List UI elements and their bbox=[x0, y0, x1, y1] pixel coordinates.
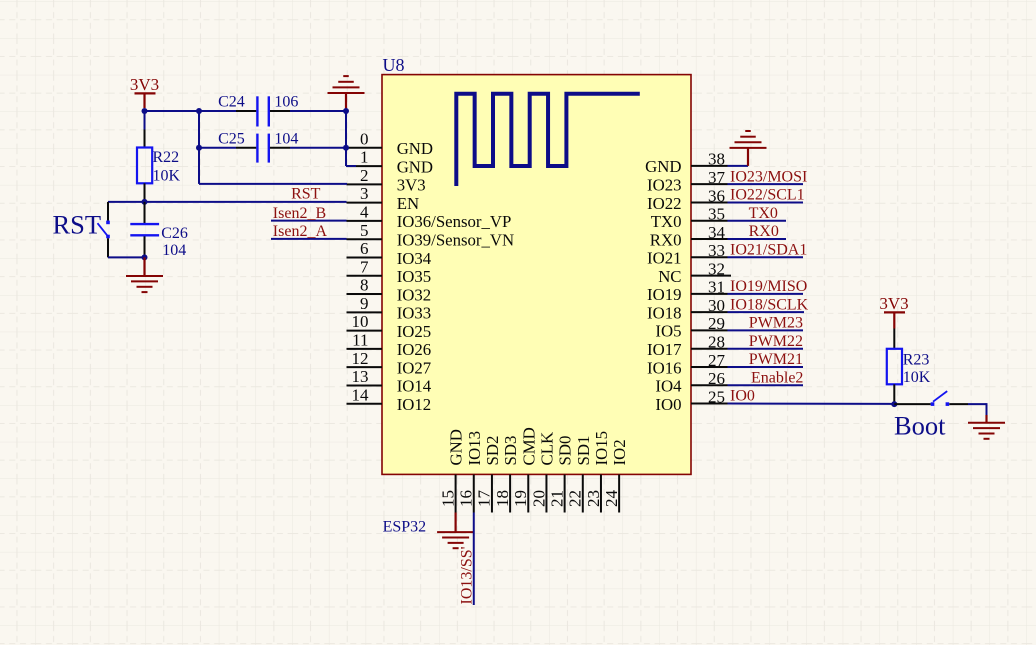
wire ground node down to pin1 bbox=[345, 111, 347, 166]
svg-text:IO26: IO26 bbox=[397, 340, 432, 359]
svg-text:3V3: 3V3 bbox=[879, 294, 908, 313]
pin 33 stub bbox=[691, 256, 728, 258]
power stem 3V3 right bbox=[893, 312, 895, 328]
power stem 3V3 left bbox=[143, 93, 145, 108]
wire C24 to ground node bbox=[290, 110, 346, 112]
svg-text:26: 26 bbox=[708, 369, 725, 388]
svg-text:CLK: CLK bbox=[537, 432, 556, 466]
pin 16 stub bbox=[473, 475, 475, 513]
pin 25 stub bbox=[691, 403, 728, 405]
svg-text:0: 0 bbox=[360, 129, 369, 148]
IC U8 ESP32 module body bbox=[382, 75, 691, 475]
C26 bottom pin bbox=[144, 236, 146, 257]
junction R23 on IO0 wire bbox=[891, 401, 897, 407]
svg-text:Isen2_A: Isen2_A bbox=[273, 223, 328, 240]
pin 23 stub bbox=[600, 475, 602, 513]
pin 2 stub bbox=[347, 183, 383, 185]
svg-text:Enable2: Enable2 bbox=[751, 369, 803, 386]
svg-text:2: 2 bbox=[360, 166, 369, 185]
wire net RX0 bbox=[728, 238, 787, 240]
pin 10 stub bbox=[347, 330, 383, 332]
pin 30 stub bbox=[691, 311, 728, 313]
pin 11 stub bbox=[347, 348, 383, 350]
switch Boot right pin bbox=[949, 403, 968, 405]
pin 37 stub bbox=[691, 183, 728, 185]
switch RST pads bbox=[106, 221, 110, 239]
pin 4 stub bbox=[347, 220, 383, 222]
svg-text:SD0: SD0 bbox=[556, 436, 575, 466]
svg-text:3V3: 3V3 bbox=[130, 75, 159, 94]
R23 top lead bbox=[893, 329, 895, 349]
svg-text:IO18/SCLK: IO18/SCLK bbox=[730, 296, 809, 313]
ground stem top bbox=[345, 93, 347, 111]
wire switch to C26 bottom bbox=[108, 256, 145, 258]
svg-text:14: 14 bbox=[352, 385, 370, 404]
svg-text:IO34: IO34 bbox=[397, 249, 432, 268]
wire IO13/SS net bbox=[473, 513, 475, 606]
svg-text:NC: NC bbox=[658, 267, 681, 286]
wire net IO19/MISO bbox=[728, 293, 804, 295]
svg-text:C26: C26 bbox=[161, 225, 188, 242]
wire net IO22/SCL1 bbox=[728, 201, 804, 203]
svg-text:22: 22 bbox=[566, 490, 585, 507]
pin 35 stub bbox=[691, 220, 728, 222]
C24 left pin bbox=[236, 110, 256, 112]
svg-text:106: 106 bbox=[274, 94, 298, 111]
svg-text:21: 21 bbox=[547, 490, 566, 507]
pin 26 stub bbox=[691, 384, 728, 386]
svg-text:25: 25 bbox=[708, 387, 725, 406]
ground GND38 bbox=[730, 131, 767, 148]
ground GND Boot bbox=[968, 423, 1005, 439]
svg-text:3V3: 3V3 bbox=[397, 176, 426, 195]
svg-text:GND: GND bbox=[447, 429, 466, 465]
svg-text:31: 31 bbox=[708, 278, 725, 297]
ground stem Boot bbox=[985, 415, 987, 423]
junction C24 right ground bbox=[343, 108, 349, 114]
svg-text:11: 11 bbox=[352, 330, 368, 349]
wire C25 to pin0 node bbox=[290, 147, 346, 149]
wire IO0 net bbox=[728, 403, 895, 405]
switch RST blade bbox=[98, 223, 108, 236]
pin 34 stub bbox=[691, 238, 728, 240]
pin 29 stub bbox=[691, 329, 728, 331]
pin 14 stub bbox=[347, 403, 383, 405]
pin 3 stub bbox=[347, 202, 383, 204]
svg-text:IO0: IO0 bbox=[730, 388, 755, 405]
svg-text:30: 30 bbox=[708, 296, 725, 315]
svg-text:13: 13 bbox=[352, 367, 369, 386]
svg-text:IO33: IO33 bbox=[397, 304, 432, 323]
pin 6 stub bbox=[347, 256, 383, 258]
svg-text:28: 28 bbox=[708, 333, 725, 352]
svg-text:29: 29 bbox=[708, 314, 725, 333]
svg-text:IO13: IO13 bbox=[465, 431, 484, 466]
svg-text:20: 20 bbox=[529, 490, 548, 507]
switch Boot pads bbox=[931, 402, 949, 406]
svg-text:33: 33 bbox=[708, 241, 725, 260]
svg-text:RST: RST bbox=[53, 209, 102, 239]
wire to C25 left bbox=[199, 147, 236, 149]
svg-text:IO21: IO21 bbox=[647, 249, 682, 268]
svg-text:U8: U8 bbox=[383, 55, 405, 75]
svg-text:IO25: IO25 bbox=[397, 322, 432, 341]
pin 28 stub bbox=[691, 348, 728, 350]
svg-text:10K: 10K bbox=[903, 369, 931, 386]
svg-text:23: 23 bbox=[584, 490, 603, 507]
pin 38 stub bbox=[691, 165, 728, 167]
svg-text:10K: 10K bbox=[153, 168, 181, 185]
svg-text:IO23/MOSI: IO23/MOSI bbox=[730, 168, 807, 185]
switch Boot blade bbox=[933, 391, 947, 402]
svg-text:IO21/SDA1: IO21/SDA1 bbox=[730, 242, 807, 259]
wire to C24 left bbox=[199, 110, 236, 112]
wire net IO21/SDA1 bbox=[728, 256, 804, 258]
svg-text:18: 18 bbox=[493, 490, 512, 507]
C25 left pin bbox=[236, 147, 256, 149]
switch Boot left pin bbox=[894, 403, 930, 405]
wire Boot to ground bbox=[968, 403, 987, 405]
svg-text:27: 27 bbox=[708, 351, 726, 370]
pin 12 stub bbox=[347, 366, 383, 368]
pin 7 stub bbox=[347, 275, 383, 277]
svg-text:PWM21: PWM21 bbox=[749, 351, 803, 368]
svg-text:SD3: SD3 bbox=[501, 436, 520, 466]
svg-text:IO16: IO16 bbox=[647, 358, 682, 377]
svg-text:PWM23: PWM23 bbox=[749, 315, 803, 332]
svg-text:ESP32: ESP32 bbox=[383, 518, 427, 535]
svg-text:IO22: IO22 bbox=[647, 194, 682, 213]
svg-text:IO19/MISO: IO19/MISO bbox=[730, 278, 807, 295]
wire net TX0 bbox=[728, 220, 787, 222]
R23 bottom lead bbox=[893, 384, 895, 402]
svg-text:34: 34 bbox=[708, 223, 726, 242]
svg-text:32: 32 bbox=[708, 259, 725, 278]
wire net PWM23 bbox=[728, 329, 804, 331]
svg-text:IO27: IO27 bbox=[397, 358, 432, 377]
ground GND C26 bbox=[126, 276, 163, 292]
pin 24 stub bbox=[618, 475, 620, 513]
svg-text:CMD: CMD bbox=[519, 427, 538, 465]
junction C26 ground node bbox=[142, 254, 148, 260]
pin 27 stub bbox=[691, 366, 728, 368]
C24 right pin bbox=[270, 110, 290, 112]
svg-text:C24: C24 bbox=[218, 94, 245, 111]
wire corner to pin1 bbox=[346, 165, 356, 167]
C26 top pin bbox=[144, 202, 146, 223]
svg-text:SD1: SD1 bbox=[574, 436, 593, 466]
switch RST top pin bbox=[107, 202, 109, 221]
wire Isen2_A to pin5 bbox=[271, 238, 347, 240]
svg-text:IO22/SCL1: IO22/SCL1 bbox=[730, 187, 805, 204]
junction RST node bbox=[142, 199, 148, 205]
switch RST bottom pin bbox=[107, 238, 109, 257]
svg-text:IO17: IO17 bbox=[647, 340, 682, 359]
pin 15 stub bbox=[455, 475, 457, 513]
svg-text:IO19: IO19 bbox=[647, 285, 682, 304]
svg-text:PWM22: PWM22 bbox=[749, 333, 803, 350]
pin 13 stub bbox=[347, 384, 383, 386]
svg-text:15: 15 bbox=[438, 490, 457, 507]
svg-text:C25: C25 bbox=[218, 131, 245, 148]
svg-text:35: 35 bbox=[708, 205, 725, 224]
svg-text:8: 8 bbox=[360, 276, 369, 295]
pin 32 stub bbox=[691, 275, 731, 277]
svg-text:EN: EN bbox=[397, 194, 419, 213]
svg-text:TX0: TX0 bbox=[749, 205, 778, 222]
svg-text:IO39/Sensor_VN: IO39/Sensor_VN bbox=[397, 231, 514, 250]
ground GND15 bbox=[437, 532, 474, 548]
svg-text:9: 9 bbox=[360, 294, 369, 313]
pin 31 stub bbox=[691, 293, 728, 295]
svg-text:IO35: IO35 bbox=[397, 267, 432, 286]
pin 5 stub bbox=[347, 238, 383, 240]
svg-text:IO13/SS': IO13/SS' bbox=[458, 546, 475, 604]
wire net IO18/SCLK bbox=[728, 311, 805, 313]
ground GND top bbox=[328, 76, 365, 93]
wire down to C25 bbox=[198, 111, 200, 148]
svg-text:1: 1 bbox=[360, 148, 369, 167]
wire net IO23/MOSI bbox=[728, 183, 804, 185]
resistor R23 bbox=[887, 349, 902, 385]
svg-text:IO0: IO0 bbox=[655, 395, 681, 414]
svg-text:IO18: IO18 bbox=[647, 303, 682, 322]
svg-text:IO14: IO14 bbox=[397, 377, 432, 396]
wire pin38 to ground bbox=[728, 165, 749, 167]
svg-text:IO15: IO15 bbox=[592, 431, 611, 466]
junction 3V3 node bbox=[142, 108, 148, 114]
pin 1 stub bbox=[347, 165, 383, 167]
svg-text:5: 5 bbox=[360, 221, 369, 240]
svg-text:GND: GND bbox=[645, 157, 681, 176]
pin 18 stub bbox=[509, 475, 511, 513]
svg-text:38: 38 bbox=[708, 150, 725, 169]
wire RST net to EN pin bbox=[108, 201, 347, 203]
pin 22 stub bbox=[582, 475, 584, 513]
pin 20 stub bbox=[545, 475, 547, 513]
svg-text:GND: GND bbox=[397, 139, 433, 158]
pin 0 stub bbox=[347, 147, 383, 149]
svg-text:RX0: RX0 bbox=[650, 230, 682, 249]
ground stem pin38 bbox=[747, 148, 749, 166]
svg-text:R23: R23 bbox=[903, 352, 930, 369]
svg-text:GND: GND bbox=[397, 157, 433, 176]
pin 17 stub bbox=[491, 475, 493, 513]
pin 21 stub bbox=[564, 475, 566, 513]
resistor R22 bbox=[137, 148, 152, 184]
ground stem pin15 bbox=[455, 513, 457, 532]
svg-text:19: 19 bbox=[511, 490, 530, 507]
svg-text:10: 10 bbox=[352, 312, 369, 331]
svg-text:IO23: IO23 bbox=[647, 175, 682, 194]
svg-text:R22: R22 bbox=[153, 149, 180, 166]
capacitor C26 bbox=[130, 224, 159, 235]
svg-text:Boot: Boot bbox=[894, 411, 946, 441]
svg-text:SD2: SD2 bbox=[483, 436, 502, 466]
wire down to 3V3 pin2 bbox=[198, 148, 200, 184]
R22 top lead bbox=[144, 130, 146, 148]
power bar 3V3 left bbox=[135, 92, 156, 94]
svg-text:7: 7 bbox=[360, 257, 369, 276]
svg-text:IO4: IO4 bbox=[655, 377, 682, 396]
ground stem C26 bbox=[143, 257, 145, 276]
junction C24 left branch bbox=[196, 108, 202, 114]
wire down to ground Boot bbox=[986, 403, 988, 415]
svg-text:104: 104 bbox=[162, 242, 186, 259]
svg-text:104: 104 bbox=[274, 131, 298, 148]
capacitor C24 bbox=[257, 96, 268, 126]
svg-text:24: 24 bbox=[602, 490, 621, 508]
svg-text:IO32: IO32 bbox=[397, 285, 432, 304]
svg-text:TX0: TX0 bbox=[651, 212, 682, 231]
pin 9 stub bbox=[347, 311, 383, 313]
C25 right pin bbox=[270, 147, 290, 149]
svg-text:Isen2_B: Isen2_B bbox=[273, 205, 326, 222]
wire 3V3 to pin2 bbox=[199, 183, 347, 185]
junction pin0 node bbox=[343, 145, 349, 151]
antenna meander graphic inside U8 bbox=[456, 94, 640, 186]
svg-text:RX0: RX0 bbox=[749, 223, 779, 240]
R22 bottom lead bbox=[144, 183, 146, 200]
wire 3V3 node to C24 bbox=[145, 110, 200, 112]
svg-text:4: 4 bbox=[360, 203, 369, 222]
svg-text:17: 17 bbox=[475, 490, 494, 508]
pin 19 stub bbox=[527, 475, 529, 513]
capacitor C25 bbox=[257, 134, 268, 163]
svg-text:RST: RST bbox=[291, 186, 321, 203]
wire net PWM21 bbox=[728, 366, 804, 368]
svg-text:12: 12 bbox=[352, 349, 369, 368]
svg-text:37: 37 bbox=[708, 168, 726, 187]
svg-text:6: 6 bbox=[360, 239, 369, 258]
wire net PWM22 bbox=[728, 348, 804, 350]
wire net Enable2 bbox=[728, 384, 804, 386]
svg-text:3: 3 bbox=[360, 184, 369, 203]
svg-text:16: 16 bbox=[457, 490, 476, 507]
wire Isen2_B to pin4 bbox=[271, 220, 347, 222]
pin 36 stub bbox=[691, 201, 728, 203]
power bar 3V3 right bbox=[884, 311, 905, 313]
svg-text:IO36/Sensor_VP: IO36/Sensor_VP bbox=[397, 212, 512, 231]
pin 8 stub bbox=[347, 293, 383, 295]
junction C25 left bbox=[196, 145, 202, 151]
svg-text:IO5: IO5 bbox=[655, 322, 681, 341]
svg-text:36: 36 bbox=[708, 186, 725, 205]
svg-text:IO2: IO2 bbox=[610, 439, 629, 465]
svg-text:IO12: IO12 bbox=[397, 395, 432, 414]
wire 3V3 down to R22 bbox=[144, 110, 146, 130]
